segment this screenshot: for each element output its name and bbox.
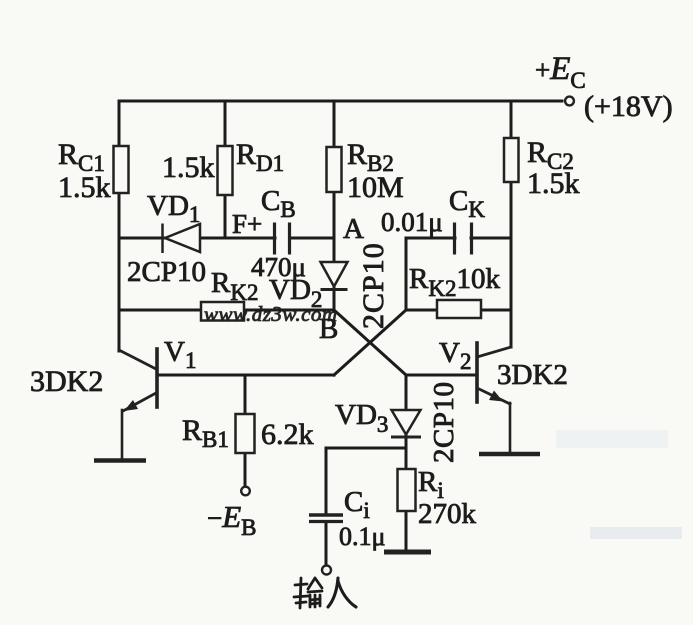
svg-text:(+18V): (+18V) — [584, 90, 673, 123]
svg-text:2CP10: 2CP10 — [127, 256, 206, 288]
ground of Ri — [384, 550, 431, 555]
svg-text:RK210k: RK210k — [409, 263, 500, 301]
terminal input — [322, 566, 331, 575]
transistor V2 — [477, 343, 511, 452]
wire RB2 branch vertical (node A to B) — [333, 101, 336, 311]
diode VD1 — [163, 224, 201, 254]
resistor RC1 — [114, 146, 129, 193]
svg-text:RD1: RD1 — [236, 138, 284, 176]
svg-text:Ci: Ci — [344, 486, 370, 523]
svg-text:270k: 270k — [418, 498, 477, 530]
wire RD1 branch vertical — [224, 101, 227, 238]
svg-text:2CP10: 2CP10 — [428, 382, 460, 463]
svg-text:0.1μ: 0.1μ — [339, 522, 385, 551]
svg-text:CK: CK — [449, 185, 485, 222]
diode VD2 — [321, 262, 348, 290]
wire top supply rail — [119, 100, 562, 103]
svg-text:A: A — [343, 213, 364, 245]
svg-text:0.01μ: 0.01μ — [381, 207, 443, 237]
resistor RD1 — [218, 146, 233, 195]
label input glyph ru — [328, 578, 356, 607]
faint scan smudge — [590, 527, 682, 539]
svg-text:1.5k: 1.5k — [58, 171, 111, 204]
wire Ci top lead — [325, 448, 328, 514]
wire cross diagonal right-to-left (to V1 base) — [334, 310, 406, 375]
svg-text:RB1: RB1 — [182, 414, 229, 452]
wire RB1 vertical — [244, 375, 247, 486]
svg-text:3DK2: 3DK2 — [30, 365, 103, 398]
terminal +Ec — [565, 97, 574, 106]
svg-text:1.5k: 1.5k — [527, 167, 580, 200]
transistor V1 — [119, 349, 157, 458]
resistor RB1 — [236, 414, 255, 453]
wire RK2 right line — [406, 309, 511, 312]
svg-text:CB: CB — [261, 185, 296, 222]
ground of V2 — [479, 452, 540, 457]
svg-text:10M: 10M — [347, 171, 404, 204]
ground of V1 — [94, 458, 146, 463]
svg-text:1.5k: 1.5k — [162, 151, 215, 184]
wire cross diagonal left-to-right (B to V2 base) — [334, 310, 406, 375]
wire RK2 left line — [119, 309, 334, 312]
wire RC2 branch vertical (V2 collector) — [510, 101, 513, 347]
capacitor CK — [455, 223, 472, 255]
svg-text:VD1: VD1 — [147, 190, 200, 227]
capacitor CB — [275, 223, 290, 255]
terminal -Eb — [241, 487, 250, 496]
wire left branch vertical (RC1 / V1 collector) — [118, 101, 121, 351]
diode VD3 — [391, 410, 421, 437]
label input (Chinese glyphs drawn) — [294, 578, 322, 608]
wire VD3 / Ri vertical — [405, 375, 408, 551]
svg-text:+EC: +EC — [535, 51, 586, 93]
svg-text:2CP10: 2CP10 — [357, 242, 390, 329]
wire VD1 / CB horizontal line — [119, 237, 334, 240]
svg-text:3DK2: 3DK2 — [497, 359, 568, 391]
wire V2 base line — [406, 374, 477, 377]
resistor RB2 — [327, 147, 342, 192]
resistor Ri — [398, 469, 416, 511]
svg-text:−EB: −EB — [207, 499, 257, 540]
wire CK-to-RK2 vertical — [405, 238, 408, 310]
svg-text:F+: F+ — [232, 209, 262, 239]
wire CK horizontal line — [406, 237, 511, 240]
wire V1 base line — [157, 374, 334, 377]
resistor RK2 left — [201, 302, 244, 321]
resistor RK2 right — [437, 300, 481, 318]
svg-text:V1: V1 — [164, 336, 196, 373]
wire input lead — [325, 522, 328, 565]
svg-text:6.2k: 6.2k — [261, 418, 314, 451]
capacitor Ci — [309, 515, 343, 522]
resistor RC2 — [504, 138, 519, 182]
svg-text:V2: V2 — [439, 337, 471, 374]
svg-text:VD3: VD3 — [335, 399, 388, 437]
wire Ci horizontal line — [326, 447, 406, 450]
svg-text:www.dz3w.com: www.dz3w.com — [204, 302, 338, 326]
